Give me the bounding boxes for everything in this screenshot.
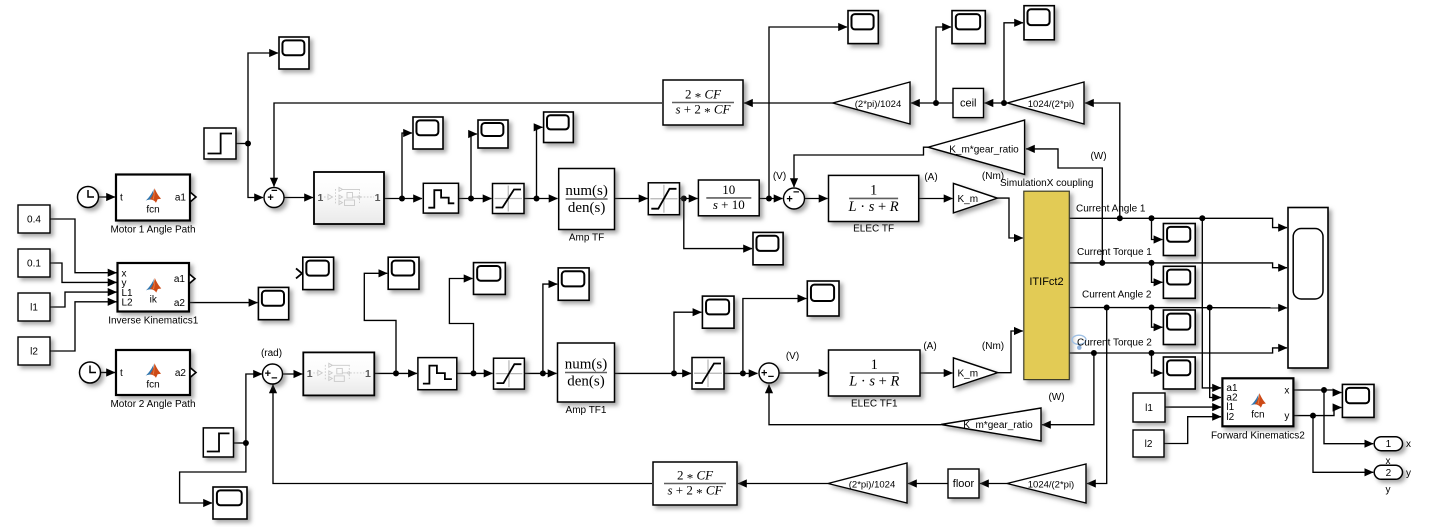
svg-text:1024/(2*pi): 1024/(2*pi) (1028, 480, 1074, 491)
wire sum1 to subsystem1 (285, 197, 314, 199)
wire Amp TF1 to saturation4 (615, 372, 692, 374)
wire J2 up to scope A1 (402, 133, 412, 199)
svg-text:L · s + R: L · s + R (848, 199, 899, 215)
wire step2 to junction J19 (234, 442, 245, 444)
outport out 2 y (1374, 465, 1402, 479)
wire J10 up to scope T3 (1004, 23, 1023, 103)
display block (multi-input scope) (1288, 208, 1328, 369)
wire IK a2 to scope IK (189, 302, 257, 304)
constant 0.1 value 0.1 (18, 249, 50, 277)
wire J4 up to scope A3 (537, 127, 543, 198)
gain K_m 2 value K_m (953, 358, 997, 388)
svg-text:(W): (W) (1090, 151, 1106, 162)
gain gain 1024/2pi top value 1024/(2*pi) (1007, 82, 1084, 124)
wire J7 up to gain 1024/2pi top (1085, 103, 1120, 218)
open input port marker scope IK2 open input (296, 268, 302, 278)
node J4 (534, 196, 540, 202)
scope T1 (848, 11, 878, 44)
wire J15 down to scope R3 (1152, 308, 1163, 328)
wire const l2 to IK L2 (50, 302, 117, 351)
wire saturation4 to sum4 (724, 372, 758, 374)
svg-text:a1: a1 (174, 274, 186, 285)
svg-text:(2*pi)/1024: (2*pi)/1024 (849, 480, 895, 491)
wire W tap to gain Kmgr1 input (1026, 149, 1102, 263)
wire const l1 to IK L1 (50, 292, 117, 307)
scope R3 (1163, 310, 1195, 345)
scope A1 (413, 117, 443, 149)
svg-text:floor: floor (953, 478, 975, 490)
svg-text:ELEC TF1: ELEC TF1 (851, 399, 898, 410)
svg-text:L2: L2 (122, 298, 134, 309)
svg-text:l1: l1 (1145, 403, 1153, 414)
svg-text:K_m*gear_ratio: K_m*gear_ratio (949, 145, 1019, 156)
svg-text:ceil: ceil (960, 98, 977, 110)
svg-text:K_m*gear_ratio: K_m*gear_ratio (963, 420, 1033, 431)
wire J5 down to scope B (684, 199, 752, 249)
svg-text:num(s): num(s) (565, 357, 608, 373)
node J15 line3 tap scope (1149, 305, 1155, 311)
node J20 (393, 370, 399, 376)
scope R2 (1163, 266, 1195, 298)
scope IK2 (303, 257, 334, 289)
svg-text:x: x (1406, 439, 1411, 450)
svg-text:s + 2 * CF: s + 2 * CF (675, 102, 731, 120)
wire J22 up to scope M3 (543, 284, 557, 373)
svg-text:num(s): num(s) (565, 183, 608, 199)
scope C1 (702, 296, 734, 328)
SimulationX coupling block ITIFct2 (1024, 191, 1070, 379)
wire const 0.4 to IK x (50, 219, 117, 273)
wire saturation2 to tf10 (680, 198, 698, 200)
node J21 (471, 370, 477, 376)
svg-text:+: + (761, 367, 767, 379)
matlab-function Motor 2 Angle Path (116, 350, 190, 395)
scope R4 (1163, 357, 1195, 389)
wire ceil to gain 2pi/1024 top (911, 102, 953, 104)
wire J17 down to gain Kmgr2 input (1042, 353, 1094, 425)
step source step2 (203, 428, 233, 457)
annotation artifact blue ring (1072, 335, 1086, 344)
svg-text:(rad): (rad) (261, 348, 282, 359)
scope BL (213, 487, 247, 519)
node J7 line1 tap up (1117, 215, 1123, 221)
clock clock1 (78, 187, 99, 208)
wire gain Kmgr2 to sum4 minus (769, 385, 941, 425)
gain gain 2pi/1024 bottom value (2*pi)/1024 (828, 463, 907, 503)
svg-text:1: 1 (870, 182, 877, 198)
transfer-fcn TF 2CF top (663, 80, 743, 125)
wire J25 down to outport 1 (1324, 390, 1373, 444)
svg-text:10: 10 (722, 182, 735, 197)
svg-text:−: − (768, 371, 774, 383)
scope TL (279, 37, 309, 69)
svg-text:+: + (786, 193, 792, 205)
svg-text:t: t (120, 193, 123, 204)
svg-text:ik: ik (150, 294, 158, 305)
scope B (753, 232, 783, 264)
node J19 (243, 440, 249, 446)
svg-text:l1: l1 (30, 303, 38, 314)
node J18 line4 tap scope (1149, 350, 1155, 356)
wire J24 up to scope C2 (743, 299, 806, 374)
wire sum4 to ELEC TF1 (780, 372, 828, 374)
svg-text:K_m: K_m (958, 194, 979, 205)
svg-text:(V): (V) (786, 351, 799, 362)
svg-text:den(s): den(s) (568, 200, 606, 216)
scope A2 (478, 120, 508, 148)
saturation saturation4 (692, 358, 724, 390)
node J13 line2 tap scope (1149, 260, 1155, 266)
node J6 (766, 196, 772, 202)
constant l2 left value l2 (18, 337, 50, 365)
open output port marker IK a1 out (189, 274, 195, 284)
wire ELEC TF1 to gain Km2 (920, 372, 953, 374)
svg-text:1: 1 (375, 192, 381, 204)
transfer-fcn TF 2CF bottom (653, 462, 737, 505)
svg-text:Amp TF: Amp TF (569, 233, 604, 244)
transfer-fcn ELEC TF1 (829, 350, 921, 396)
svg-text:1024/(2*pi): 1024/(2*pi) (1028, 99, 1074, 110)
wire clock1 to Motor1 t (99, 196, 116, 198)
wire line1 from ITIFct2 out1 to display (1069, 218, 1287, 227)
wire feedback top from TF 2CF to sum1 (274, 103, 662, 187)
step source step1 (204, 128, 236, 159)
quantizer quantizer1 (423, 183, 458, 213)
gain K_m*gear_ratio 2 value K_m*gear_ratio (941, 408, 1041, 441)
wire saturation1 to Amp TF (524, 198, 558, 200)
svg-text:a2: a2 (174, 298, 186, 309)
svg-text:(A): (A) (923, 341, 936, 352)
open output port marker Motor2 a2 out (190, 368, 196, 378)
svg-text:ITIFct2: ITIFct2 (1029, 276, 1063, 288)
node J16 line3 tap a2 (1207, 305, 1213, 311)
node J8 line1 tap scope (1149, 215, 1155, 221)
wire line2 from ITIFct2 out2 to display (1069, 263, 1287, 268)
wire J21 staircase to scope M2 (449, 279, 473, 374)
transfer-fcn Amp TF1 (558, 343, 615, 402)
wire const l2R to FK2 l2 (1164, 417, 1221, 444)
wire gain 2pi/1024 top to TF 2CF top (744, 102, 833, 104)
svg-text:SimulationX coupling: SimulationX coupling (1000, 178, 1093, 189)
wire J19 up to sum3 (246, 374, 262, 443)
svg-text:Forward Kinematics2: Forward Kinematics2 (1211, 430, 1305, 441)
wire gain 1024/2pi bottom to floor (980, 483, 1007, 485)
svg-text:(V): (V) (773, 171, 786, 182)
node J25 (1321, 387, 1327, 393)
scope FR (1342, 384, 1374, 417)
scope M1 (388, 257, 419, 289)
svg-text:t: t (120, 368, 123, 379)
svg-text:y: y (1284, 411, 1289, 422)
svg-text:1: 1 (1386, 439, 1392, 450)
wire J26 down to outport 2 (1313, 416, 1373, 473)
svg-text:Current Torque 1: Current Torque 1 (1077, 247, 1152, 258)
wire subsystem2 to quantizer2 (374, 372, 417, 374)
wire FK2 x to scope FR in1 (1293, 390, 1341, 393)
wire J3 up to scope A2 (471, 134, 477, 199)
svg-text:(Nm): (Nm) (982, 341, 1004, 352)
node J3 (468, 196, 474, 202)
wire gain 2pi/1024 bottom to TF 2CF bottom (738, 483, 828, 485)
block floor (948, 469, 979, 498)
svg-text:s + 10: s + 10 (713, 197, 745, 212)
node J2 (399, 196, 405, 202)
svg-text:−: − (271, 372, 277, 384)
svg-text:L · s + R: L · s + R (848, 374, 899, 390)
open output port marker Motor1 a1 out (190, 192, 196, 202)
scope R1 (1163, 224, 1195, 256)
constant 0.4 value 0.4 (18, 205, 50, 233)
quantizer quantizer2 (418, 358, 457, 390)
saturation saturation1 (493, 184, 525, 214)
svg-text:Current Angle 1: Current Angle 1 (1076, 204, 1146, 215)
svg-text:(W): (W) (1048, 392, 1064, 403)
wire floor to gain 2pi/1024 bottom (908, 483, 948, 485)
svg-text:ELEC TF: ELEC TF (853, 224, 894, 235)
svg-text:−: − (793, 186, 799, 198)
svg-text:a1: a1 (175, 193, 187, 204)
svg-text:Current Torque 2: Current Torque 2 (1077, 338, 1152, 349)
scope M3 (558, 268, 589, 300)
svg-text:0.4: 0.4 (27, 215, 41, 226)
subsystem subsystem2 (303, 352, 374, 395)
wire J1 down to sum1 (248, 144, 263, 198)
scope C2 (807, 281, 839, 316)
scope T2 (952, 11, 985, 44)
svg-text:a2: a2 (175, 368, 187, 379)
wire FK2 y to scope FR in2 (1293, 408, 1341, 416)
svg-text:(A): (A) (924, 172, 937, 183)
wire gain Km2 to ITIFct2 input2 (998, 331, 1023, 373)
node J22 (540, 370, 546, 376)
node J26 (1310, 413, 1316, 419)
gain K_m 1 value K_m (953, 183, 997, 213)
saturation saturation2 (648, 183, 679, 215)
wire J16 down to FK2 a2 (1210, 308, 1221, 398)
wire J11 up to scope T2 (936, 27, 951, 103)
wire J23 up to scope C1 (674, 312, 701, 373)
wire tf10 to sum2 (759, 198, 782, 200)
wire gain Km1 to ITIFct2 input1 (997, 198, 1022, 238)
wire J14 down to gain 1024/2pi bottom (1087, 308, 1107, 484)
wire J9 down to FK2 a1 (1202, 218, 1221, 388)
svg-text:fcn: fcn (146, 380, 159, 391)
wire sum2 to ELEC TF (805, 198, 828, 200)
wire feedback bottom from TF 2CF bot to sum3 (273, 385, 652, 484)
wire J13 down to scope R2 (1152, 263, 1163, 282)
saturation saturation3 (494, 358, 525, 389)
svg-text:x: x (1386, 456, 1391, 467)
block ceil (953, 88, 984, 117)
svg-text:x: x (1284, 386, 1289, 397)
node J11 (933, 100, 939, 106)
wire gain Kmgr1 to sum2 minus (794, 147, 928, 187)
svg-text:−: − (271, 185, 277, 197)
wire saturation3 to Amp TF1 (524, 372, 556, 374)
node J23 (671, 370, 677, 376)
wire J8 down to scope R1 (1152, 218, 1163, 239)
subsystem subsystem1 (314, 172, 384, 224)
sum sum3 (263, 364, 283, 384)
wire gain 1024/2pi top to ceil (985, 102, 1008, 104)
wire ELEC TF to gain Km1 (919, 198, 953, 200)
sum sum1 (264, 185, 284, 207)
transfer-fcn Amp TF (559, 169, 615, 230)
wire quantizer1 to saturation1 (459, 198, 492, 200)
gain K_m*gear_ratio 1 value K_m*gear_ratio (928, 120, 1025, 174)
svg-text:l2: l2 (1226, 412, 1234, 423)
svg-text:(2*pi)/1024: (2*pi)/1024 (855, 99, 901, 110)
svg-text:1: 1 (871, 357, 878, 373)
gain gain 2pi/1024 top value (2*pi)/1024 (833, 82, 910, 124)
wire J1 up to scope TL (248, 53, 278, 144)
node J5 (681, 196, 687, 202)
wire line4 from ITIFct2 out4 to display (1069, 348, 1287, 353)
wire J18 down to scope R4 (1152, 353, 1163, 373)
wire J19 down to scope BL (180, 443, 246, 503)
svg-text:Inverse Kinematics1: Inverse Kinematics1 (108, 316, 198, 327)
svg-text:y: y (1406, 468, 1411, 479)
wire J6 up to scope T1 (769, 27, 847, 199)
svg-text:y: y (1386, 485, 1391, 496)
scope M2 (474, 263, 506, 295)
svg-text:l2: l2 (30, 347, 38, 358)
svg-text:1: 1 (365, 368, 371, 380)
constant l2 right value l2 (1133, 430, 1164, 457)
svg-text:Amp TF1: Amp TF1 (566, 405, 607, 416)
node J14 line3 tap floor chain (1104, 305, 1110, 311)
svg-text:0.1: 0.1 (27, 259, 41, 270)
gain gain 1024/2pi bottom value 1024/(2*pi) (1007, 464, 1086, 503)
constant l1 right value l1 (1133, 393, 1165, 422)
svg-text:1: 1 (307, 368, 313, 380)
node J10 (1001, 100, 1007, 106)
scope T3 (1024, 6, 1054, 40)
constant l1 left value l1 (18, 293, 50, 321)
svg-text:K_m: K_m (958, 369, 979, 380)
wire quantizer2 to saturation3 (457, 372, 493, 374)
svg-text:Current Angle 2: Current Angle 2 (1082, 290, 1152, 301)
node J12 line2 tap W (1099, 260, 1105, 266)
wire line3 from ITIFct2 out3 to display (1069, 307, 1287, 309)
svg-text:den(s): den(s) (567, 374, 605, 390)
transfer-fcn tf10 (698, 180, 759, 216)
wire step1 to junction J1 (236, 143, 247, 145)
scope A3 (544, 112, 574, 143)
svg-text:Motor 1 Angle Path: Motor 1 Angle Path (110, 225, 195, 236)
clock clock2 (80, 362, 101, 383)
matlab-function Motor 1 Angle Path (116, 175, 190, 221)
matlab-function Inverse Kinematics1 (118, 263, 190, 312)
svg-text:fcn: fcn (1251, 410, 1264, 421)
node J17 line4 tap Kmgr2 (1091, 350, 1097, 356)
wire sum3 to subsystem2 (282, 373, 302, 375)
svg-text:l2: l2 (1145, 439, 1153, 450)
wire const l1R to FK2 l1 (1165, 406, 1221, 408)
wire J20 staircase to scope M1 (364, 273, 396, 373)
matlab-function Forward Kinematics2 (1222, 378, 1293, 426)
transfer-fcn ELEC TF (829, 175, 919, 221)
node J9 line1 tap a1 (1199, 215, 1205, 221)
node J1 (245, 141, 251, 147)
scope IK out (258, 287, 288, 319)
svg-text:Motor 2 Angle Path: Motor 2 Angle Path (110, 399, 195, 410)
svg-text:2: 2 (1386, 468, 1392, 479)
wire Amp TF to saturation2 (615, 198, 648, 200)
svg-text:s + 2 * CF: s + 2 * CF (667, 483, 723, 501)
sum sum4 (759, 363, 779, 383)
wire const 0.1 to IK y (50, 263, 117, 282)
svg-text:fcn: fcn (146, 205, 159, 216)
wire clock2 to Motor2 t (101, 372, 116, 374)
outport out 1 x (1374, 437, 1402, 451)
annotation artifact blue dot (1077, 345, 1082, 350)
sum sum2 (784, 186, 805, 209)
node J24 (740, 370, 746, 376)
wire subsystem1 to quantizer1 (384, 198, 422, 200)
svg-text:1: 1 (318, 192, 324, 204)
